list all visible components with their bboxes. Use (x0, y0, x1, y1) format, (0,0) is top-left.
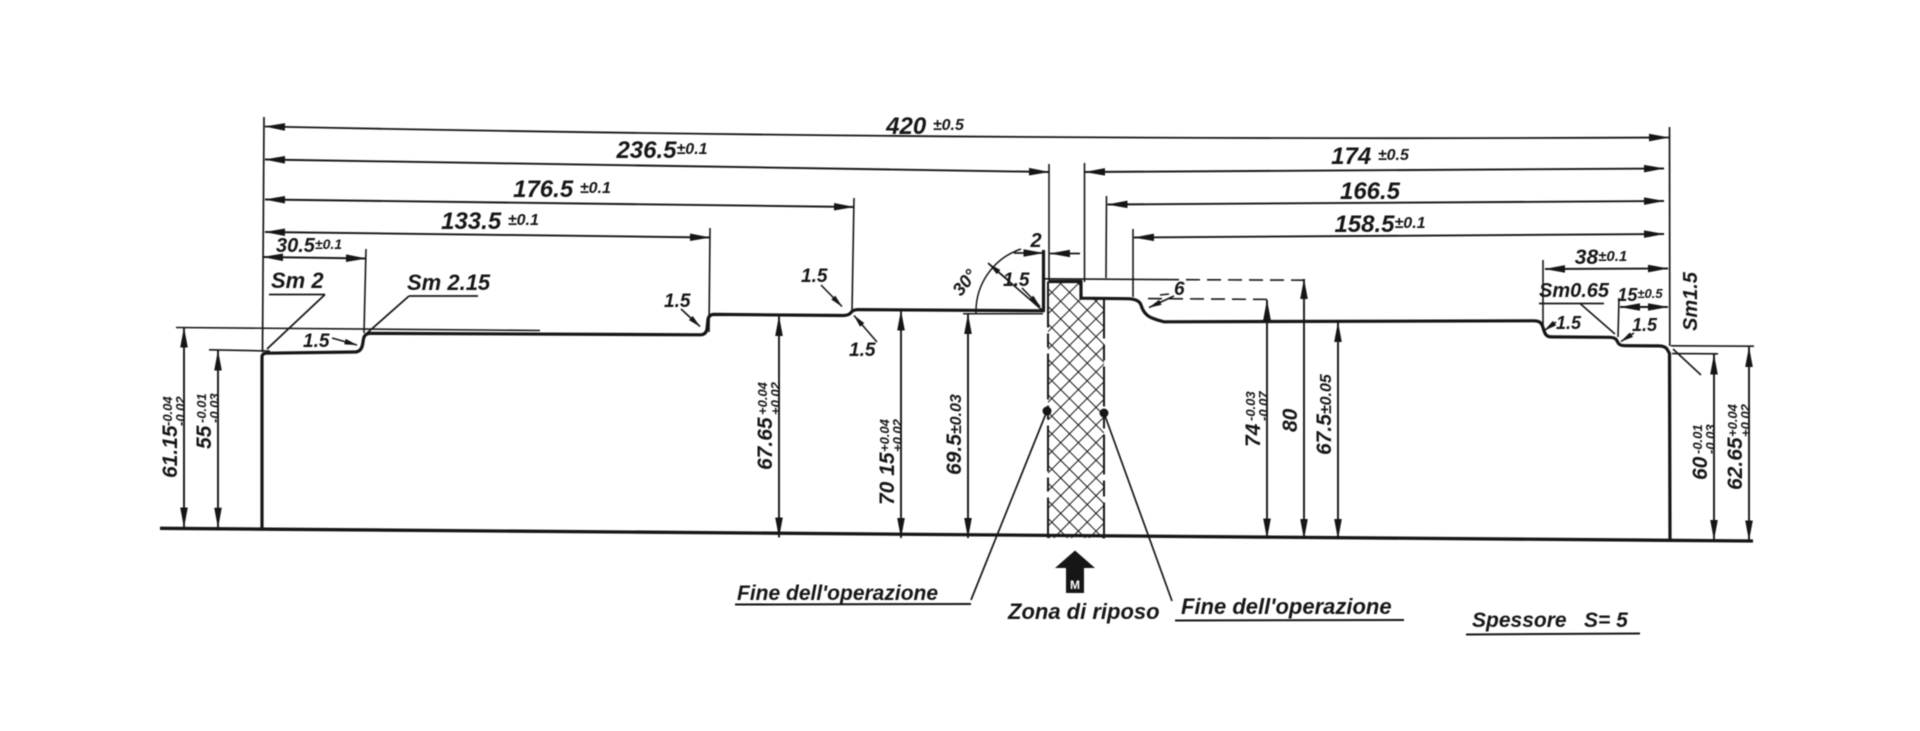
svg-text:80: 80 (1279, 408, 1302, 432)
svg-text:Sm 2: Sm 2 (271, 268, 324, 293)
label Sm 2 (267, 268, 325, 349)
svg-text:1.5: 1.5 (303, 331, 330, 352)
svg-text:70 15: 70 15 (876, 452, 899, 505)
176.5 extension (x=854) (852, 198, 854, 311)
label 6 (1149, 279, 1185, 308)
svg-text:Fine dell'operazione: Fine dell'operazione (737, 582, 938, 605)
bottom edge (160, 528, 1753, 541)
label 1.5 left fillet (303, 331, 357, 352)
svg-text:Sm0.65: Sm0.65 (1539, 280, 1610, 302)
svg-text:-0.07: -0.07 (1256, 391, 1271, 421)
svg-text:1.5: 1.5 (801, 266, 828, 287)
dim 420 (265, 113, 1669, 140)
svg-text:+0.02: +0.02 (890, 418, 905, 452)
leader dot left (971, 407, 1052, 601)
svg-text:61.15: 61.15 (159, 425, 182, 478)
80-level extension line (1043, 278, 1165, 281)
15 extension (x=1619) (1618, 298, 1619, 337)
svg-text:-0.03: -0.03 (1703, 424, 1718, 454)
text Fine dell'operazione left (735, 582, 971, 605)
svg-text:2: 2 (1029, 230, 1041, 252)
part profile outline (262, 250, 1670, 541)
svg-text:Sm 2.15: Sm 2.15 (407, 270, 491, 295)
svg-text:Zona di riposo: Zona di riposo (1007, 599, 1160, 624)
svg-text:60: 60 (1689, 456, 1712, 480)
svg-text:-0.02: -0.02 (173, 396, 188, 426)
left extension vertical (x=263) (263, 117, 265, 352)
74-level extension line (1148, 298, 1269, 301)
dim 166.5 (1108, 178, 1665, 205)
text Fine dell'operazione right (1175, 594, 1404, 621)
svg-text:1.5: 1.5 (1556, 313, 1582, 333)
dim 176.5 (265, 176, 854, 207)
label 1.5 right second (1621, 315, 1658, 342)
158.5 extension (x=1133) (1132, 229, 1134, 297)
label 1.5 upper at step x850 (801, 266, 842, 307)
dim 174 (1085, 143, 1664, 172)
label 1.5 at step x707 (664, 291, 700, 327)
svg-text:Fine dell'operazione: Fine dell'operazione (1181, 594, 1392, 619)
dim 60 vertical (1689, 355, 1718, 541)
dim 74 vertical (1242, 300, 1271, 539)
label Sm0.65 (1539, 280, 1615, 334)
svg-text:1.5: 1.5 (664, 291, 691, 312)
text Zona di riposo (1007, 599, 1160, 624)
236.5 extension (x=1049) (1048, 164, 1050, 281)
dim 80 vertical (1279, 279, 1304, 539)
text Spessore S=5 (1466, 609, 1640, 635)
69.5-level doubled line (963, 313, 1043, 315)
svg-text:74: 74 (1242, 423, 1265, 447)
label 1.5 lower at step x850 (849, 316, 877, 362)
label Sm 2.15 (366, 270, 491, 334)
174 extension (x=1084) (1084, 163, 1086, 282)
right extension vertical (x=1670) (1669, 127, 1671, 346)
svg-text:M: M (1070, 578, 1080, 592)
62.65 top extension (1671, 345, 1754, 347)
svg-text:166.5: 166.5 (1340, 178, 1401, 205)
dim 158.5 (1134, 211, 1664, 238)
166.5 extension (x=1106) (1105, 196, 1108, 278)
dim 67.5 vertical (1313, 322, 1338, 539)
svg-text:55: 55 (193, 425, 216, 449)
label Sm1.5 rotated (1673, 271, 1702, 375)
label 1.5 right first (1545, 313, 1583, 333)
svg-text:+0.02: +0.02 (1738, 403, 1753, 437)
label 1.5 at 30deg corner (1003, 270, 1040, 307)
dim 2 (1014, 230, 1080, 254)
dim 67.65 vertical (754, 316, 783, 538)
dim 61.15 vertical (159, 328, 188, 528)
leader dot right (1100, 409, 1173, 602)
svg-text:-0.03: -0.03 (207, 393, 222, 423)
dim 236.5 (265, 137, 1049, 172)
svg-text:Sm1.5: Sm1.5 (1680, 271, 1702, 331)
dim 15 (1617, 285, 1668, 307)
30.5 right extension (x=366) (364, 249, 366, 333)
dim 70.15 vertical (876, 311, 905, 539)
svg-text:67.65: 67.65 (754, 417, 777, 470)
black arrow symbol (1055, 551, 1095, 594)
133.5 extension (x=711) (709, 228, 710, 332)
dim 62.65 vertical (1724, 347, 1753, 541)
svg-text:1.5: 1.5 (1632, 315, 1658, 335)
dim 38 (1545, 246, 1668, 269)
dim 55 vertical (193, 351, 222, 528)
svg-text:62.65: 62.65 (1724, 437, 1747, 490)
dim 133.5 (265, 208, 710, 238)
61.15 top extension (176, 328, 540, 331)
dim 69.5 vertical (943, 314, 968, 538)
60 top extension (1672, 353, 1718, 355)
hatched zona di riposo (1048, 282, 1104, 539)
svg-text:+0.02: +0.02 (768, 381, 783, 415)
svg-text:Spessore S= 5: Spessore S= 5 (1472, 609, 1628, 632)
55 top extension (209, 350, 270, 351)
30 degree line and arc (948, 249, 1042, 313)
dim 30.5 (263, 235, 366, 259)
38 extension (x=1544) (1542, 260, 1544, 331)
svg-text:1.5: 1.5 (849, 340, 876, 361)
svg-text:6: 6 (1174, 279, 1185, 300)
